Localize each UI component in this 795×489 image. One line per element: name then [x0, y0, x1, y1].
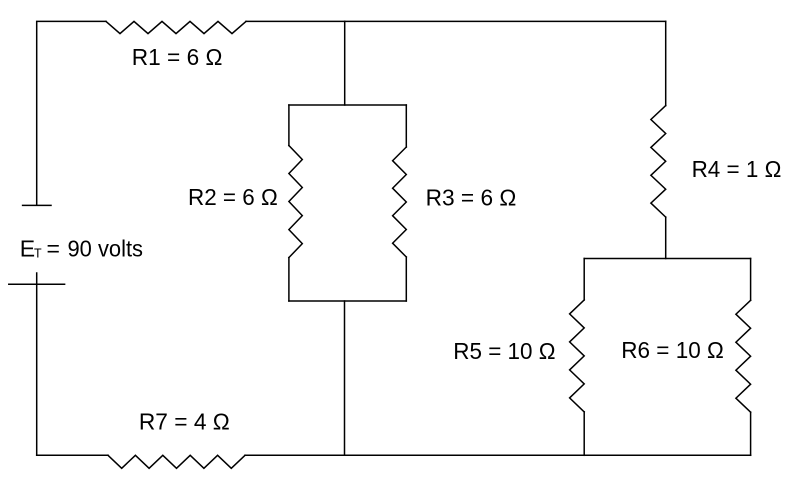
svg-text:R1 = 6 Ω: R1 = 6 Ω	[132, 44, 223, 70]
wire: bottom-left to R7	[37, 454, 108, 456]
resistor R3	[393, 147, 407, 257]
wire: top from node A to top-right corner	[345, 20, 666, 22]
svg-text:90 volts: 90 volts	[68, 236, 144, 262]
wire: top bus of R2/R3 parallel pair	[289, 104, 406, 106]
wire: top-left from battery up and right to R1	[37, 21, 106, 205]
wire: R4 to node C (top of R5/R6 pair)	[665, 217, 667, 258]
svg-text:R4 = 1 Ω: R4 = 1 Ω	[692, 156, 782, 182]
wire: top from R1 to node A (junction above R2/R3)	[246, 20, 345, 22]
wire: R5 lower lead	[583, 412, 585, 455]
wire: R2 upper lead	[288, 105, 290, 146]
wire: R3 upper lead	[405, 105, 407, 147]
wire: bottom bus from R7 to right under R5/R6	[245, 454, 751, 456]
battery ET top plate (short)	[23, 204, 51, 206]
svg-text:=: =	[47, 236, 60, 262]
wire: R3 lower lead	[405, 257, 407, 301]
svg-text:R3 = 6 Ω: R3 = 6 Ω	[426, 185, 517, 211]
resistor R5	[570, 300, 585, 412]
svg-text:R5 = 10 Ω: R5 = 10 Ω	[453, 338, 555, 364]
node B: junction below R2/R3 down to bottom wire	[344, 301, 346, 455]
wire: right rail down to R4	[665, 21, 667, 105]
resistor R1	[106, 21, 246, 33]
resistor R4	[651, 106, 666, 218]
resistor R7	[108, 455, 245, 468]
wire: battery negative lead down left rail	[36, 273, 38, 455]
svg-text:E: E	[20, 236, 35, 262]
wire: top bus of R5/R6 parallel pair	[584, 258, 750, 260]
node A: top junction feeding R2/R3	[344, 21, 346, 105]
wire: bottom bus of R2/R3 parallel pair	[289, 300, 406, 302]
resistor R2	[289, 146, 302, 258]
svg-text:R6 = 10 Ω: R6 = 10 Ω	[621, 337, 724, 363]
svg-text:T: T	[34, 247, 42, 261]
svg-text:R7 = 4 Ω: R7 = 4 Ω	[139, 408, 230, 434]
wire: R2 lower lead	[288, 258, 290, 301]
wire: R5 upper lead	[583, 259, 585, 300]
svg-text:R2 = 6 Ω: R2 = 6 Ω	[188, 184, 278, 210]
resistor R6	[736, 300, 751, 412]
wire: R6 lower lead to bottom bus	[750, 412, 752, 455]
battery ET bottom plate (long)	[9, 283, 65, 285]
wire: R6 upper lead	[750, 259, 752, 301]
